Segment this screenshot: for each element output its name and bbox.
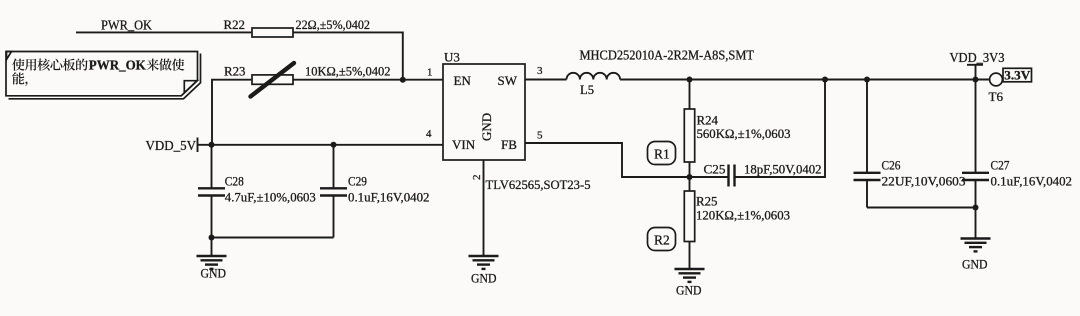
node VDD_3V3 label: [950, 51, 1005, 80]
node VDD_5V label: [146, 138, 198, 154]
svg-text:C25: C25: [704, 162, 726, 177]
svg-text:18pF,50V,0402: 18pF,50V,0402: [744, 162, 822, 177]
svg-text:GND: GND: [479, 113, 494, 141]
svg-text:0.1uF,16V,0402: 0.1uF,16V,0402: [348, 190, 430, 205]
svg-text:2: 2: [471, 175, 483, 181]
testpoint T6 circle: [990, 73, 1003, 86]
svg-text:GND: GND: [676, 282, 702, 297]
svg-text:C29: C29: [348, 173, 367, 188]
marker R2: [648, 228, 676, 251]
svg-text:R25: R25: [696, 194, 718, 209]
note box: [6, 52, 198, 96]
svg-text:FB: FB: [501, 137, 517, 152]
junction R24 tap: [687, 77, 693, 83]
svg-text:T6: T6: [989, 89, 1004, 104]
svg-text:120KΩ,±1%,0603: 120KΩ,±1%,0603: [696, 208, 790, 223]
note fold corner: [184, 81, 197, 93]
marker R1: [648, 142, 676, 165]
svg-text:C28: C28: [225, 173, 244, 188]
ground symbol U3: [469, 256, 499, 286]
svg-text:22Ω,±5%,0402: 22Ω,±5%,0402: [296, 17, 371, 32]
resistor R22: [252, 28, 293, 37]
junction C28 gnd: [209, 235, 215, 241]
svg-text:U3: U3: [444, 49, 460, 64]
svg-text:VDD_3V3: VDD_3V3: [950, 51, 1005, 66]
wire U3 pin2 to gnd: [483, 160, 485, 256]
note box shadow: [9, 54, 201, 99]
svg-text:PWR_OK: PWR_OK: [101, 18, 152, 33]
svg-text:4: 4: [426, 128, 432, 140]
IC U3 body: [443, 49, 525, 160]
svg-text:PWR_OK: PWR_OK: [89, 59, 146, 74]
svg-text:560KΩ,±1%,0603: 560KΩ,±1%,0603: [697, 126, 791, 141]
resistor R24: [684, 80, 694, 178]
R23 DNP slash: [251, 63, 295, 97]
svg-text:GND: GND: [471, 271, 497, 286]
capacitor C26: [854, 80, 881, 208]
svg-text:1: 1: [427, 66, 433, 78]
svg-text:MHCD252010A-2R2M-A8S,SMT: MHCD252010A-2R2M-A8S,SMT: [580, 48, 755, 63]
svg-text:C26: C26: [882, 157, 901, 172]
junction VDD_3V3: [973, 77, 979, 83]
svg-text:GND: GND: [201, 265, 227, 280]
ground symbol C27: [961, 239, 991, 272]
junction C27 gnd: [973, 205, 979, 211]
svg-text:EN: EN: [454, 73, 472, 88]
svg-text:L5: L5: [580, 82, 594, 97]
svg-text:R1: R1: [654, 147, 670, 162]
svg-text:0.1uF,16V,0402: 0.1uF,16V,0402: [991, 173, 1073, 188]
wire L5 to testpoint: [620, 79, 990, 81]
wire C28-C29 bottom: [212, 237, 334, 239]
junction C29 tap: [331, 142, 337, 148]
svg-text:VDD_5V: VDD_5V: [146, 139, 197, 154]
svg-text:R23: R23: [224, 64, 246, 79]
capacitor C29: [320, 145, 347, 238]
junction C25 right: [822, 77, 828, 83]
label 3.3V box: [1003, 68, 1032, 82]
capacitor C28: [198, 145, 225, 256]
resistor R23: [252, 75, 293, 84]
wire R23 right to EN: [293, 79, 443, 81]
inductor L5: [567, 73, 621, 80]
wire SW to L5: [525, 79, 567, 81]
wire FB net: [525, 143, 690, 177]
capacitor C27: [962, 80, 989, 239]
svg-text:4.7uF,±10%,0603: 4.7uF,±10%,0603: [225, 190, 316, 205]
svg-text:C27: C27: [991, 157, 1010, 172]
svg-text:GND: GND: [962, 257, 988, 272]
ground symbol R25: [675, 269, 705, 297]
svg-text:22UF,10V,0603: 22UF,10V,0603: [882, 173, 966, 188]
svg-text:3: 3: [537, 65, 543, 77]
ground symbol C28: [197, 256, 227, 280]
wire PWR_OK net: [76, 32, 403, 77]
svg-text:VIN: VIN: [452, 137, 476, 152]
svg-text:TLV62565,SOT23-5: TLV62565,SOT23-5: [486, 177, 591, 192]
junction R22/R23/EN: [400, 77, 406, 83]
junction C26 tap: [864, 77, 870, 83]
note corner triangle: [7, 52, 12, 60]
svg-text:10KΩ,±5%,0402: 10KΩ,±5%,0402: [305, 64, 391, 79]
wire R23 left to VDD_5V: [212, 80, 252, 145]
svg-text:5: 5: [537, 130, 543, 142]
capacitor C25: [690, 80, 826, 187]
svg-text:R2: R2: [654, 233, 670, 248]
wire VDD_5V to VIN: [198, 144, 444, 146]
svg-text:SW: SW: [498, 73, 518, 88]
junction FB/R24/R25/C25: [687, 174, 693, 180]
resistor R25: [684, 177, 694, 269]
svg-text:3.3V: 3.3V: [1004, 69, 1030, 83]
junction C28 tap: [209, 142, 215, 148]
note text: [12, 58, 184, 86]
wire C26-C27 bottom: [867, 207, 976, 209]
svg-text:R22: R22: [224, 17, 246, 32]
